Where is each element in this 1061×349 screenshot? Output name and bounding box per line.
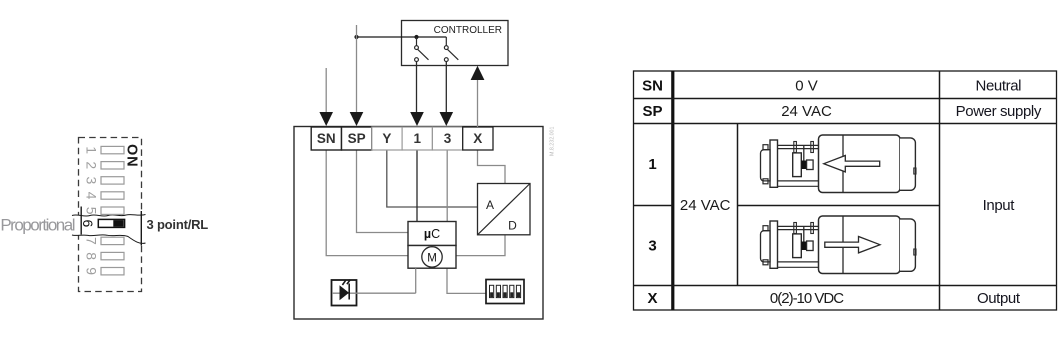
svg-text:24 VAC: 24 VAC	[781, 103, 832, 120]
svg-text:SP: SP	[642, 103, 662, 120]
svg-text:2: 2	[84, 161, 100, 169]
svg-text:5: 5	[84, 207, 100, 215]
svg-text:9: 9	[84, 267, 100, 275]
svg-text:CONTROLLER: CONTROLLER	[434, 25, 502, 36]
svg-text:X: X	[473, 131, 482, 146]
svg-text:8: 8	[84, 252, 100, 260]
svg-text:24 VAC: 24 VAC	[680, 197, 731, 214]
svg-text:D: D	[508, 219, 517, 233]
svg-text:4: 4	[84, 192, 100, 200]
svg-text:A: A	[486, 198, 494, 212]
svg-text:SN: SN	[642, 77, 663, 94]
svg-text:Y: Y	[382, 131, 391, 146]
svg-text:3: 3	[444, 131, 452, 146]
svg-text:1: 1	[648, 156, 656, 173]
svg-text:6: 6	[80, 220, 96, 228]
svg-text:SN: SN	[317, 131, 336, 146]
svg-text:1: 1	[413, 131, 421, 146]
svg-text:Power supply: Power supply	[956, 103, 1042, 120]
svg-text:3 point/RL: 3 point/RL	[147, 217, 209, 232]
svg-text:0 V: 0 V	[795, 77, 818, 94]
svg-text:Proportional: Proportional	[0, 216, 74, 235]
svg-text:0(2)-10 VDC: 0(2)-10 VDC	[770, 290, 844, 307]
svg-text:M: M	[427, 252, 437, 264]
svg-text:Output: Output	[977, 290, 1021, 307]
svg-text:1: 1	[84, 146, 100, 154]
svg-text:SP: SP	[348, 131, 366, 146]
svg-text:Neutral: Neutral	[976, 77, 1022, 94]
svg-text:3: 3	[648, 238, 656, 255]
svg-text:µC: µC	[424, 227, 440, 241]
svg-text:7: 7	[84, 237, 100, 245]
svg-text:3: 3	[84, 177, 100, 185]
svg-text:Input: Input	[983, 197, 1016, 214]
svg-text:X: X	[647, 290, 657, 307]
svg-text:ON: ON	[124, 144, 140, 167]
svg-text:M.8.232.001: M.8.232.001	[550, 126, 556, 156]
